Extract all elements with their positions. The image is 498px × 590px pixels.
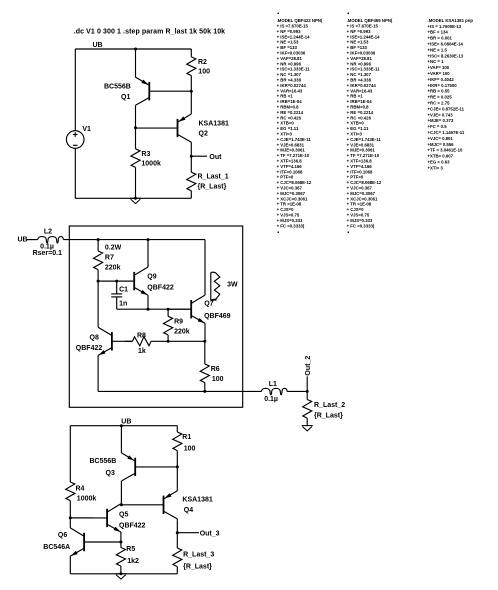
resistor R4: [66, 481, 75, 518]
svg-text:+ RBM=0.8: + RBM=0.8: [277, 105, 300, 110]
junction C1 top: [115, 280, 118, 283]
svg-text:+ XCJC=0.3061: + XCJC=0.3061: [277, 196, 308, 201]
svg-text:{R_Last}: {R_Last}: [314, 413, 343, 420]
model text bullet col1 bottom: [278, 232, 279, 233]
junction Q3 collector / Q5 collector / Q4 base: [120, 503, 123, 506]
svg-text:+ MJC=0.3067: + MJC=0.3067: [347, 191, 376, 196]
svg-text:+CJC= 1.1467E-11: +CJC= 1.1467E-11: [428, 130, 465, 135]
svg-text:+MJE= 0.373: +MJE= 0.373: [428, 118, 454, 123]
svg-text:+ VAR=16.43: + VAR=16.43: [277, 88, 303, 93]
svg-text:+ RB =1: + RB =1: [347, 94, 364, 99]
wire left rail to V1: [74, 49, 76, 131]
svg-text:+ EG =1.11: + EG =1.11: [347, 126, 369, 131]
svg-text:+VJC= 0.801: +VJC= 0.801: [428, 136, 454, 141]
svg-text:+ BR =4.338: + BR =4.338: [347, 78, 372, 83]
svg-text:Q1: Q1: [121, 94, 130, 101]
svg-text:+ NE =1.53: + NE =1.53: [277, 40, 299, 45]
resistor R6: [200, 341, 209, 391]
wire V1 minus to bottom rail: [74, 148, 76, 198]
resistor R3: [131, 128, 140, 199]
junction Q1 collector / R3 / Q2 base: [134, 126, 137, 129]
svg-text:+ VAF=28.81: + VAF=28.81: [277, 56, 303, 61]
svg-text:Q6: Q6: [58, 532, 67, 539]
wire Q7 collector to top rail: [204, 240, 206, 294]
svg-text:Q4: Q4: [184, 507, 193, 514]
svg-text:+ ISE=1.244E-14: + ISE=1.244E-14: [347, 34, 381, 39]
model text bullet col1 top: [278, 13, 279, 14]
ground (top circuit): [130, 198, 141, 203]
svg-text:+ XTF=136.8: + XTF=136.8: [347, 159, 373, 164]
svg-text:+ VJE=0.6831: + VJE=0.6831: [277, 142, 305, 147]
wire bottom rail (middle circuit) to L1: [98, 390, 261, 392]
svg-text:+FC = 0.5: +FC = 0.5: [428, 124, 448, 129]
svg-text:+ EG =1.11: + EG =1.11: [277, 126, 299, 131]
svg-text:.MODEL QBF469 NPN(: .MODEL QBF469 NPN(: [347, 18, 393, 23]
svg-text:1000k: 1000k: [77, 496, 97, 503]
wire Q4 collector to Out_3 node: [176, 521, 178, 533]
svg-text:{R_Last}: {R_Last}: [198, 184, 227, 191]
svg-text:+ CJC=8.068E-12: + CJC=8.068E-12: [347, 180, 382, 185]
wire Q1 collector down to node: [135, 105, 137, 128]
svg-text:R2: R2: [198, 59, 207, 66]
svg-text:100: 100: [184, 445, 196, 452]
transistor Q9 QBF422 (NPN): [98, 265, 148, 297]
resistor 3W (collector load): [211, 272, 220, 300]
svg-text:+ RB =1: + RB =1: [277, 94, 294, 99]
svg-text:+RB = 0.55: +RB = 0.55: [428, 89, 451, 94]
wire Q5 emitter down: [120, 534, 122, 542]
wire C1 bottom / Q9 emitter / Q7 base: [117, 308, 192, 310]
junction Q2 collector / Out / R_Last_1: [190, 155, 193, 158]
resistor R8: [125, 337, 205, 346]
svg-text:+ BF =133: + BF =133: [347, 45, 368, 50]
svg-text:+VAR= 100: +VAR= 100: [428, 71, 451, 76]
junction Q9 collector / top rail: [147, 238, 150, 241]
svg-text:+ IS =7.670E-15: + IS =7.670E-15: [277, 24, 309, 29]
svg-text:UB: UB: [18, 236, 28, 243]
svg-text:+IKR= 0.17500: +IKR= 0.17500: [428, 83, 458, 88]
junction R2 / Q1 base / Q2 emitter: [190, 90, 193, 93]
svg-text:+ FC =0.3333): + FC =0.3333): [277, 223, 305, 228]
wire left rail to R4: [69, 426, 71, 481]
svg-text:+ BF =133: + BF =133: [277, 45, 298, 50]
svg-text:1n: 1n: [119, 300, 127, 307]
svg-text:100: 100: [198, 69, 210, 76]
svg-text:+TF = 3.0461E-10: +TF = 3.0461E-10: [428, 148, 463, 153]
junction R7 / Q9 base wire / Q8 collector: [97, 280, 100, 283]
svg-text:Q8: Q8: [90, 334, 99, 341]
svg-text:R1: R1: [182, 434, 191, 441]
svg-text:+ VJS=0.75: + VJS=0.75: [277, 213, 300, 218]
svg-text:+XTB= 0.607: +XTB= 0.607: [428, 154, 454, 159]
transistor Q2 KSA1381 (PNP): [136, 113, 192, 144]
subcircuit boundary box: [69, 226, 242, 407]
wire Q3 emitter to UB rail: [120, 426, 122, 453]
svg-text:QBF422: QBF422: [76, 345, 103, 352]
wire to Out port: [191, 155, 207, 157]
svg-text:+ TR =1E-08: + TR =1E-08: [347, 202, 372, 207]
resistor R1: [173, 426, 182, 467]
svg-text:+ VJE=0.6831: + VJE=0.6831: [347, 142, 375, 147]
svg-text:{R_Last}: {R_Last}: [183, 564, 212, 571]
svg-text:R6: R6: [211, 366, 220, 373]
svg-text:R7: R7: [105, 254, 114, 261]
svg-text:+IKF= 0.4042: +IKF= 0.4042: [428, 77, 455, 82]
wire Q3 collector down: [120, 481, 122, 505]
svg-text:Q5: Q5: [119, 511, 128, 518]
svg-text:+ IKF=0.03036: + IKF=0.03036: [347, 51, 376, 56]
svg-text:+RE = 0.025: +RE = 0.025: [428, 95, 453, 100]
svg-text:+ NE =1.53: + NE =1.53: [347, 40, 369, 45]
svg-text:QBF422: QBF422: [147, 284, 174, 291]
resistor R_Last_1: [187, 156, 196, 198]
svg-text:Q3: Q3: [106, 470, 115, 477]
wire Out_2 stub: [306, 376, 308, 391]
svg-text:+ NC =1.307: + NC =1.307: [277, 72, 302, 77]
svg-text:+ RE =0.2214: + RE =0.2214: [277, 110, 304, 115]
svg-text:UB: UB: [121, 419, 131, 426]
ground (R_Last_2): [302, 426, 313, 431]
svg-text:+ MJE=0.3061: + MJE=0.3061: [277, 148, 306, 153]
svg-text:+ IKF=0.03036: + IKF=0.03036: [277, 51, 306, 56]
svg-text:+ TF =7.271E-10: + TF =7.271E-10: [277, 153, 310, 158]
svg-text:+ TF =7.271E-10: + TF =7.271E-10: [347, 153, 380, 158]
svg-text:+ CJE=1.743E-11: + CJE=1.743E-11: [347, 137, 382, 142]
inductor L2: [38, 237, 64, 244]
wire Q8 emitter to bottom rail: [97, 357, 99, 391]
transistor Q1 BC556B (PNP): [136, 77, 192, 105]
model text bullet col2 top: [348, 13, 349, 14]
wire Q2 collector to Out node: [190, 144, 192, 156]
wire top rail (middle circuit): [63, 239, 205, 241]
svg-text:+ IKR=0.02744: + IKR=0.02744: [347, 83, 377, 88]
svg-text:+ XTI=3: + XTI=3: [277, 132, 293, 137]
svg-text:.MODEL KSA1381 pnp: .MODEL KSA1381 pnp: [428, 18, 474, 23]
svg-text:+ NF =0.993: + NF =0.993: [347, 29, 371, 34]
svg-text:R_Last_3: R_Last_3: [183, 551, 214, 558]
svg-text:1k2: 1k2: [127, 558, 139, 565]
svg-text:+ MJE=0.3061: + MJE=0.3061: [347, 148, 376, 153]
svg-text:+RC = 2.75: +RC = 2.75: [428, 101, 451, 106]
transistor Q4 KSA1381 (PNP): [121, 489, 177, 521]
svg-text:R4: R4: [76, 486, 85, 493]
svg-text:+ CJC=8.068E-12: + CJC=8.068E-12: [277, 180, 312, 185]
svg-text:+BF = 134: +BF = 134: [428, 30, 449, 35]
svg-text:+ IRB=1E-04: + IRB=1E-04: [347, 99, 373, 104]
svg-text:+ VJS=0.75: + VJS=0.75: [347, 213, 370, 218]
svg-text:R8: R8: [137, 332, 146, 339]
svg-text:+ NF =0.993: + NF =0.993: [277, 29, 301, 34]
wire Q6 emitter to bottom rail: [69, 558, 71, 574]
svg-text:+ ISC=1.333E-11: + ISC=1.333E-11: [347, 67, 381, 72]
svg-text:+ NR =0.996: + NR =0.996: [347, 61, 372, 66]
junction Q7 emitter / R6 / R8: [203, 340, 206, 343]
svg-text:+ VJC=0.367: + VJC=0.367: [277, 186, 303, 191]
junction R3 / ground: [134, 197, 137, 200]
svg-text:+ISE= 6.0804E-14: +ISE= 6.0804E-14: [428, 42, 464, 47]
wire Q9 emitter down: [147, 297, 149, 309]
capacitor C1: [111, 281, 122, 309]
svg-text:+ RC =0.426: + RC =0.426: [277, 115, 302, 120]
svg-text:+ RC =0.426: + RC =0.426: [347, 115, 372, 120]
model text bullet col2 bottom: [348, 232, 349, 233]
svg-text:.dc V1 0 300 1 .step param R_l: .dc V1 0 300 1 .step param R_last 1k 50k…: [74, 29, 226, 36]
svg-text:V1: V1: [82, 126, 91, 133]
model card QBF469 (column 2): [347, 18, 393, 228]
junction Q1 emitter / UB rail: [134, 48, 137, 51]
svg-text:+ MJC=0.3067: + MJC=0.3067: [277, 191, 306, 196]
junction R1 / Q3 base / Q4 emitter: [176, 465, 179, 468]
junction R9 bottom / R8: [167, 340, 170, 343]
svg-text:+ ITF=0.1068: + ITF=0.1068: [277, 169, 303, 174]
svg-text:KSA1381: KSA1381: [182, 497, 212, 504]
svg-text:+EG = 0.63: +EG = 0.63: [428, 160, 451, 165]
resistor R9: [164, 309, 173, 341]
svg-text:220k: 220k: [174, 329, 190, 336]
svg-text:3W: 3W: [227, 281, 238, 288]
svg-text:BC556B: BC556B: [90, 458, 117, 465]
resistor R_Last_3: [173, 533, 182, 574]
svg-text:+ PTF=0: + PTF=0: [347, 175, 364, 180]
svg-text:+ VAR=16.43: + VAR=16.43: [347, 88, 373, 93]
svg-text:+ VJC=0.367: + VJC=0.367: [347, 186, 373, 191]
svg-text:Out_3: Out_3: [200, 530, 220, 537]
svg-text:+ VAF=28.81: + VAF=28.81: [347, 56, 373, 61]
svg-text:+ VTF=4.166: + VTF=4.166: [347, 164, 373, 169]
svg-text:Out_2: Out_2: [305, 356, 312, 376]
svg-text:QBF422: QBF422: [119, 523, 146, 530]
svg-text:+ XTB=0: + XTB=0: [277, 121, 295, 126]
wire Q8 collector up to R7 node: [97, 281, 99, 325]
junction Q5 emitter / Q6 base / R5: [119, 541, 122, 544]
wire to Out_3 port: [177, 532, 199, 534]
svg-text:R5: R5: [126, 546, 135, 553]
svg-text:BC556B: BC556B: [104, 83, 131, 90]
svg-text:+ MJS=0.333: + MJS=0.333: [347, 218, 373, 223]
junction R4 / Q5 base / Q6 collector: [69, 516, 72, 519]
svg-text:+ IS =7.670E-15: + IS =7.670E-15: [347, 24, 379, 29]
junction R7 / top rail: [97, 238, 100, 241]
svg-text:BC546A: BC546A: [43, 544, 70, 551]
voltage source V1: [66, 131, 84, 149]
svg-text:QBF469: QBF469: [204, 313, 231, 320]
junction Q3 emitter / UB rail: [120, 424, 123, 427]
svg-text:+ ITF=0.1068: + ITF=0.1068: [347, 169, 373, 174]
svg-text:R_Last_2: R_Last_2: [314, 402, 345, 409]
svg-text:+ XTB=0: + XTB=0: [347, 121, 365, 126]
wire Q2 emitter up to R2 node: [190, 91, 192, 112]
svg-text:220k: 220k: [105, 264, 121, 271]
model card KSA1381 (column 3): [428, 18, 474, 171]
svg-text:R9: R9: [174, 319, 183, 326]
svg-text:+ MJS=0.333: + MJS=0.333: [277, 218, 303, 223]
transistor Q3 BC556B (PNP): [121, 453, 177, 481]
wire R7 bottom to Q9 base: [98, 280, 134, 282]
svg-text:+ TR =1E-08: + TR =1E-08: [277, 202, 302, 207]
transistor Q8 QBF422 (NPN): [98, 325, 132, 357]
svg-text:+ FC =0.3333): + FC =0.3333): [347, 223, 375, 228]
svg-text:+NC = 1: +NC = 1: [428, 59, 445, 64]
ground (bottom circuit): [115, 574, 126, 579]
wire Q6 collector up: [69, 518, 71, 526]
junction R9 top: [167, 308, 170, 311]
junction R5 / ground: [119, 572, 122, 575]
svg-text:+NE = 1.5: +NE = 1.5: [428, 47, 448, 52]
svg-text:Q7: Q7: [204, 300, 213, 307]
svg-text:+MJC= 0.556: +MJC= 0.556: [428, 142, 455, 147]
svg-text:L1: L1: [269, 381, 277, 388]
junction Q4 collector / Out_3 / R_Last_3: [176, 531, 179, 534]
resistor R2: [187, 49, 196, 91]
svg-text:C1: C1: [119, 286, 128, 293]
svg-text:1k: 1k: [138, 348, 146, 355]
svg-text:+ XCJC=0.3061: + XCJC=0.3061: [347, 196, 378, 201]
svg-text:+VAF= 100: +VAF= 100: [428, 65, 450, 70]
svg-text:+ ISC=1.333E-11: + ISC=1.333E-11: [277, 67, 311, 72]
svg-text:+ CJS=0: + CJS=0: [347, 207, 365, 212]
svg-text:+ NR =0.996: + NR =0.996: [277, 61, 302, 66]
transistor Q7 QBF469 (NPN): [168, 294, 205, 326]
svg-text:100: 100: [212, 376, 224, 383]
svg-text:+ RE =0.2214: + RE =0.2214: [347, 110, 374, 115]
svg-text:+ CJE=1.743E-11: + CJE=1.743E-11: [277, 137, 312, 142]
wire top rail UB (bottom circuit): [70, 425, 177, 427]
svg-text:.MODEL QBF422 NPN(: .MODEL QBF422 NPN(: [277, 18, 323, 23]
inductor L1: [261, 388, 287, 395]
svg-text:R3: R3: [141, 151, 150, 158]
svg-text:+ XTF=136.8: + XTF=136.8: [277, 159, 303, 164]
svg-text:+ RBM=0.8: + RBM=0.8: [347, 105, 370, 110]
svg-text:+ PTF=0: + PTF=0: [277, 175, 294, 180]
svg-text:Q9: Q9: [147, 273, 156, 280]
svg-text:Rser=0.1: Rser=0.1: [33, 250, 62, 257]
resistor R_Last_2: [303, 391, 312, 425]
svg-text:+ VTF=4.166: + VTF=4.166: [277, 164, 303, 169]
svg-text:Out: Out: [209, 154, 222, 161]
svg-text:+XTI= 3: +XTI= 3: [428, 165, 444, 170]
svg-text:+BR = 0.001: +BR = 0.001: [428, 36, 453, 41]
junction L1 / Out_2 / R_Last_2: [306, 390, 309, 393]
svg-text:+ISC= 8.2630E-13: +ISC= 8.2630E-13: [428, 53, 464, 58]
svg-text:+ NC =1.307: + NC =1.307: [347, 72, 372, 77]
wire Q7 emitter down: [204, 325, 206, 341]
model card QBF422 (column 1): [277, 18, 323, 228]
junction Q9 emitter: [147, 308, 150, 311]
svg-text:+ CJS=0: + CJS=0: [277, 207, 295, 212]
wire bottom rail (top circuit): [75, 197, 191, 199]
wire UB to L2: [27, 239, 38, 241]
svg-text:+ ISE=1.244E-14: + ISE=1.244E-14: [277, 34, 311, 39]
svg-text:+ IKR=0.02744: + IKR=0.02744: [277, 83, 307, 88]
wire top rail UB (top circuit): [75, 48, 191, 50]
svg-text:L2: L2: [44, 229, 52, 236]
svg-text:+ XTI=3: + XTI=3: [347, 132, 363, 137]
junction R6 bottom / rail: [203, 390, 206, 393]
wire R4 node to Q5 base: [70, 517, 93, 519]
wire Q1 emitter to UB rail: [135, 49, 137, 78]
svg-text:+ IRB=1E-04: + IRB=1E-04: [277, 99, 303, 104]
svg-text:0.1µ: 0.1µ: [264, 396, 278, 403]
svg-text:1000k: 1000k: [141, 161, 161, 168]
svg-text:0.2W: 0.2W: [105, 244, 122, 251]
svg-text:+IS = 1.7600E-13: +IS = 1.7600E-13: [428, 24, 462, 29]
wire Q4 emitter up to R1 node: [176, 467, 178, 489]
svg-text:R_Last_1: R_Last_1: [198, 173, 229, 180]
svg-text:UB: UB: [93, 42, 103, 49]
svg-text:Q2: Q2: [199, 131, 208, 138]
svg-text:+ BR =4.338: + BR =4.338: [277, 78, 302, 83]
resistor R5: [116, 542, 125, 574]
svg-text:KSA1381: KSA1381: [199, 120, 229, 127]
transistor Q5 QBF422 (NPN): [70, 504, 121, 534]
svg-text:+VJE= 0.743: +VJE= 0.743: [428, 112, 454, 117]
wire Q9 collector to top rail: [147, 240, 149, 267]
svg-text:+CJE= 0.8752E-11: +CJE= 0.8752E-11: [428, 106, 465, 111]
wire bottom rail (bottom circuit): [70, 573, 177, 575]
resistor R7: [94, 240, 103, 282]
wire L1 to Out_2 node: [287, 390, 307, 392]
transistor Q6 BC546A (NPN): [70, 526, 121, 558]
